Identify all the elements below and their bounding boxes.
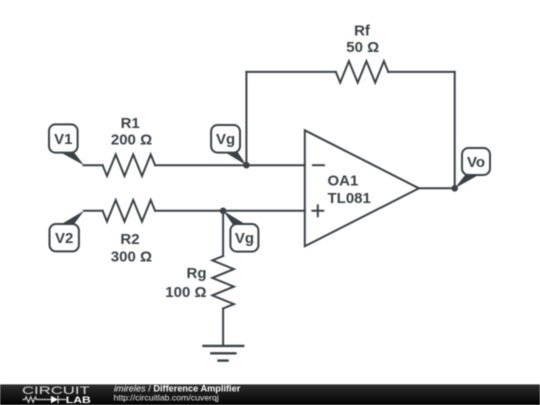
wire op-amp output bbox=[419, 187, 455, 189]
svg-text:OA1: OA1 bbox=[328, 173, 359, 190]
logo diode bbox=[51, 396, 58, 403]
wire Vg junction down to Rg bbox=[222, 211, 224, 256]
wire R1 to op-amp minus input bbox=[155, 164, 305, 166]
wire V2 to R2 bbox=[84, 210, 103, 212]
svg-text:50 Ω: 50 Ω bbox=[346, 39, 379, 56]
op-amp plus pin symbol bbox=[312, 205, 323, 216]
svg-text:Vg: Vg bbox=[235, 230, 254, 247]
svg-text:Rg: Rg bbox=[187, 265, 207, 282]
svg-text:R1: R1 bbox=[121, 115, 140, 132]
node V1 box bbox=[49, 124, 78, 152]
op-amp U1 triangle bbox=[305, 130, 419, 246]
node Vo box bbox=[462, 148, 490, 175]
node Vg2 pointer wedge bbox=[223, 211, 247, 226]
footer bar bbox=[0, 384, 540, 405]
node Vg2 box bbox=[230, 224, 258, 252]
svg-text:TL081: TL081 bbox=[328, 190, 371, 207]
node junction dot Vo bbox=[451, 185, 458, 192]
svg-text:300 Ω: 300 Ω bbox=[111, 248, 152, 265]
wire V1 to R1 bbox=[84, 164, 103, 166]
svg-text:200 Ω: 200 Ω bbox=[111, 131, 152, 148]
ground bbox=[204, 346, 244, 361]
svg-text:http://circuitlab.com/cuverqj: http://circuitlab.com/cuverqj bbox=[114, 392, 219, 402]
node V1 pointer wedge bbox=[58, 151, 84, 165]
svg-text:V1: V1 bbox=[54, 131, 72, 148]
svg-text:100 Ω: 100 Ω bbox=[165, 284, 206, 301]
node Vg1 pointer wedge bbox=[223, 151, 246, 165]
wire Rg to ground bbox=[222, 309, 224, 346]
resistor R2 bbox=[103, 200, 155, 222]
node Vg1 box bbox=[211, 125, 240, 153]
wire R2 to op-amp plus input bbox=[155, 210, 305, 212]
resistor R1 bbox=[103, 154, 155, 176]
node junction dot Vg (plus input) bbox=[220, 208, 227, 215]
wire feedback left vertical bbox=[245, 72, 247, 165]
svg-text:LAB: LAB bbox=[66, 395, 91, 405]
svg-text:Vo: Vo bbox=[467, 154, 485, 171]
node Vo pointer wedge bbox=[455, 175, 480, 189]
wire feedback right vertical bbox=[454, 72, 456, 188]
resistor Rf bbox=[336, 61, 389, 83]
svg-text:V2: V2 bbox=[55, 230, 73, 247]
node V2 pointer wedge bbox=[59, 211, 84, 226]
op-amp minus pin symbol bbox=[313, 164, 324, 166]
node junction dot Vg (minus input) bbox=[243, 162, 250, 169]
logo wire squiggle bbox=[23, 397, 52, 402]
resistor Rg bbox=[212, 256, 234, 309]
svg-text:Vg: Vg bbox=[216, 131, 235, 148]
wire feedback top left bbox=[246, 71, 335, 73]
node V2 box bbox=[50, 224, 79, 251]
svg-text:Rf: Rf bbox=[354, 22, 371, 39]
svg-text:R2: R2 bbox=[120, 231, 139, 248]
wire feedback top right bbox=[388, 71, 454, 73]
